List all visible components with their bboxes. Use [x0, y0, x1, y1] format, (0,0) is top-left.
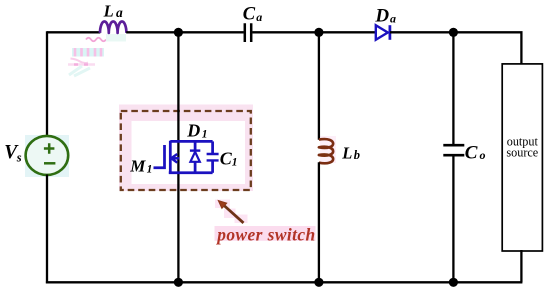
inductor La [100, 21, 126, 32]
node bottom Co [449, 278, 458, 287]
wire output box bottom [520, 250, 522, 282]
svg-text:D: D [374, 5, 389, 26]
wire top rail right of Ca [252, 31, 375, 33]
svg-text:1: 1 [232, 156, 238, 168]
svg-text:L: L [103, 2, 114, 21]
svg-text:1: 1 [147, 163, 153, 175]
svg-text:a: a [116, 5, 123, 20]
wire Co lower [452, 156, 454, 282]
wire left rail lower [46, 175, 48, 284]
wire Co upper [452, 32, 454, 144]
svg-text:s: s [16, 150, 22, 164]
MOSFET M1 channel bar [169, 141, 172, 174]
wire left rail upper [46, 31, 48, 136]
capacitor Ca [245, 23, 251, 42]
node bottom main [174, 278, 183, 287]
diode Da [376, 25, 388, 40]
svg-text:a: a [256, 10, 262, 24]
svg-text:C: C [465, 142, 478, 163]
node top Co [449, 28, 458, 37]
wire top rail left [47, 31, 100, 33]
svg-text:1: 1 [202, 128, 208, 140]
MOSFET M1 arrow [172, 157, 179, 160]
svg-text:L: L [341, 144, 352, 163]
power switch annotation arrow [224, 205, 244, 223]
svg-text:a: a [390, 11, 396, 25]
node top main [174, 28, 183, 37]
wire top rail middle [126, 31, 243, 33]
power switch box pink highlight [119, 105, 253, 192]
inductor Lb [319, 139, 333, 163]
capacitor Co [443, 145, 464, 155]
diode D1 [194, 141, 197, 149]
svg-text:power switch: power switch [215, 224, 315, 244]
capacitor C1 [211, 141, 214, 153]
wire Lb lower [318, 162, 320, 282]
MOSFET M1 gate [154, 145, 165, 168]
output source box [502, 64, 542, 251]
svg-text:D: D [186, 120, 200, 140]
svg-text:C: C [243, 5, 256, 25]
svg-text:source: source [506, 146, 538, 160]
wire bottom rail [46, 281, 523, 283]
voltage source Vs [26, 136, 69, 175]
blue bottom rail (source) [169, 171, 213, 174]
wire main vertical [177, 32, 179, 282]
svg-text:o: o [480, 148, 486, 162]
wire top rail right with corner to output box [390, 32, 521, 64]
wire Lb upper [318, 32, 320, 140]
blue top rail (drain) [170, 140, 212, 143]
svg-text:b: b [354, 148, 360, 162]
power switch dashed box [121, 111, 251, 190]
svg-text:M: M [129, 156, 146, 175]
power switch label [215, 226, 316, 241]
node bottom Lb [314, 278, 323, 287]
node top Lb [314, 28, 323, 37]
